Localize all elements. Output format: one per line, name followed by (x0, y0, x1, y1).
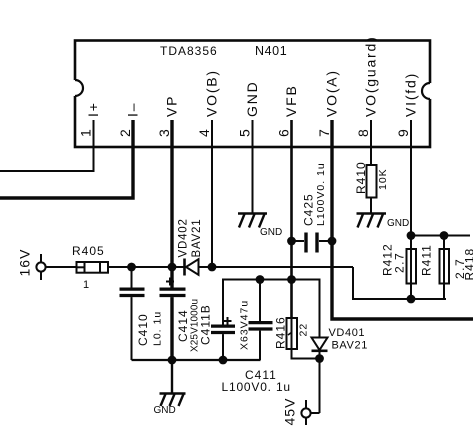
node C411 top junction (256, 275, 265, 284)
node R412 bottom junction (407, 295, 416, 304)
svg-text:GND: GND (260, 227, 282, 238)
resistor R412 (407, 236, 417, 300)
IC right notch (422, 83, 438, 99)
svg-text:BAV21: BAV21 (191, 219, 203, 258)
pin 6 wire VFB (290, 120, 293, 318)
svg-text:VD402: VD402 (178, 218, 190, 257)
svg-text:9: 9 (395, 129, 411, 137)
svg-text:GND: GND (154, 405, 176, 416)
capacitor C414 polarity + (166, 278, 174, 286)
svg-text:R418: R418 (463, 248, 473, 281)
node C425 left junction (287, 237, 296, 246)
capacitor C410 (120, 267, 145, 360)
svg-text:VD401: VD401 (329, 327, 366, 339)
node pin 6 feedback junction (287, 275, 296, 284)
IC left notch (67, 80, 83, 96)
pin 4 wire VO(B) (211, 120, 213, 267)
capacitor C425 (292, 233, 333, 253)
capacitor C411 (249, 280, 273, 361)
svg-text:C414: C414 (176, 309, 190, 342)
svg-text:I+: I+ (85, 101, 101, 117)
node C414 bottom junction (168, 356, 177, 365)
capacitor C411B (211, 326, 235, 360)
svg-text:10K: 10K (377, 168, 389, 190)
svg-text:7: 7 (316, 129, 332, 137)
svg-text:5: 5 (237, 129, 253, 137)
node C425 right junction (328, 237, 337, 246)
svg-text:VO(guard): VO(guard) (363, 35, 379, 117)
svg-text:3: 3 (156, 129, 172, 137)
resistor R410 (367, 165, 377, 214)
node R411 top junction (440, 231, 449, 240)
node C410 junction (127, 263, 136, 272)
wire VD402 to pin4 and onward (199, 266, 354, 268)
pin 5 wire GND (252, 120, 254, 214)
svg-text:C411B: C411B (199, 304, 213, 345)
pin 7 wire VO(A) (332, 120, 473, 319)
svg-text:R410: R410 (354, 161, 368, 194)
svg-text:R405: R405 (72, 244, 105, 258)
node VD401 cathode junction (315, 354, 324, 363)
IC N401 TDA8356 body (75, 41, 430, 148)
svg-text:22: 22 (298, 323, 310, 337)
pin 1 wire I+ (0, 120, 94, 171)
svg-text:VFB: VFB (283, 84, 299, 117)
svg-text:VI(fd): VI(fd) (403, 72, 419, 117)
svg-text:L100V0. 1u: L100V0. 1u (222, 380, 291, 394)
resistor R411 (440, 236, 450, 300)
svg-text:N401: N401 (255, 44, 287, 58)
pin 9 wire VI(fd) (410, 120, 412, 236)
pin 8 wire VO(guard) (370, 120, 372, 165)
wire top line pin9 to R412 R411 tops (411, 235, 470, 237)
wire C414 junction to ground (171, 360, 173, 394)
node VP junction (168, 263, 177, 272)
wire bottom rail (132, 359, 261, 361)
wire 16V to R405 (46, 266, 77, 268)
svg-text:TDA8356: TDA8356 (160, 44, 218, 58)
svg-text:VO(A): VO(A) (324, 69, 340, 117)
svg-text:2: 2 (117, 129, 133, 137)
svg-text:C410: C410 (136, 313, 150, 346)
svg-text:L100V0. 1u: L100V0. 1u (315, 162, 327, 226)
svg-text:VO(B): VO(B) (204, 69, 220, 117)
terminal 45V (301, 400, 319, 425)
resistor R405 (77, 262, 109, 273)
svg-text:VP: VP (164, 95, 180, 117)
svg-text:45V: 45V (282, 398, 298, 426)
svg-text:8: 8 (355, 129, 371, 137)
diode VD402 (185, 259, 199, 276)
node C411B bottom junction (219, 356, 228, 365)
capacitor C411B polarity + (224, 317, 232, 325)
svg-text:1: 1 (83, 279, 89, 291)
resistor R416 (287, 318, 298, 349)
svg-text:R411: R411 (420, 244, 434, 276)
svg-text:L0. 1u: L0. 1u (152, 311, 164, 346)
pin 2 wire I- (0, 120, 133, 198)
svg-text:X63V47u: X63V47u (239, 300, 251, 350)
svg-text:16V: 16V (17, 249, 33, 277)
svg-text:BAV21: BAV21 (332, 340, 368, 352)
capacitor C414 (160, 267, 186, 360)
wire feedback line y279.5 (223, 280, 320, 338)
wire R405 to VP rail (108, 266, 184, 268)
ground GND3 (below C414) (160, 394, 186, 407)
svg-text:R416: R416 (274, 316, 288, 349)
svg-text:GND: GND (387, 218, 409, 229)
ground GND1 (pin 5) (238, 214, 267, 228)
wire R416 bottom to VD401 node (292, 349, 320, 359)
node pin 4 junction (208, 263, 217, 272)
svg-text:1: 1 (78, 129, 94, 137)
svg-text:6: 6 (276, 129, 292, 137)
ground GND2 (below R410) (357, 214, 387, 228)
svg-text:2.7: 2.7 (393, 252, 407, 273)
svg-text:I–: I– (125, 102, 141, 117)
wire VP rail corner down to R412/R411 bottoms (353, 267, 446, 299)
svg-text:C425: C425 (302, 193, 316, 226)
pin 3 wire VP (170, 120, 173, 267)
diode VD401 (312, 338, 328, 414)
svg-text:GND: GND (244, 80, 260, 117)
node R412 top junction (407, 231, 416, 240)
terminal 16V (36, 254, 45, 280)
svg-text:4: 4 (196, 129, 212, 137)
